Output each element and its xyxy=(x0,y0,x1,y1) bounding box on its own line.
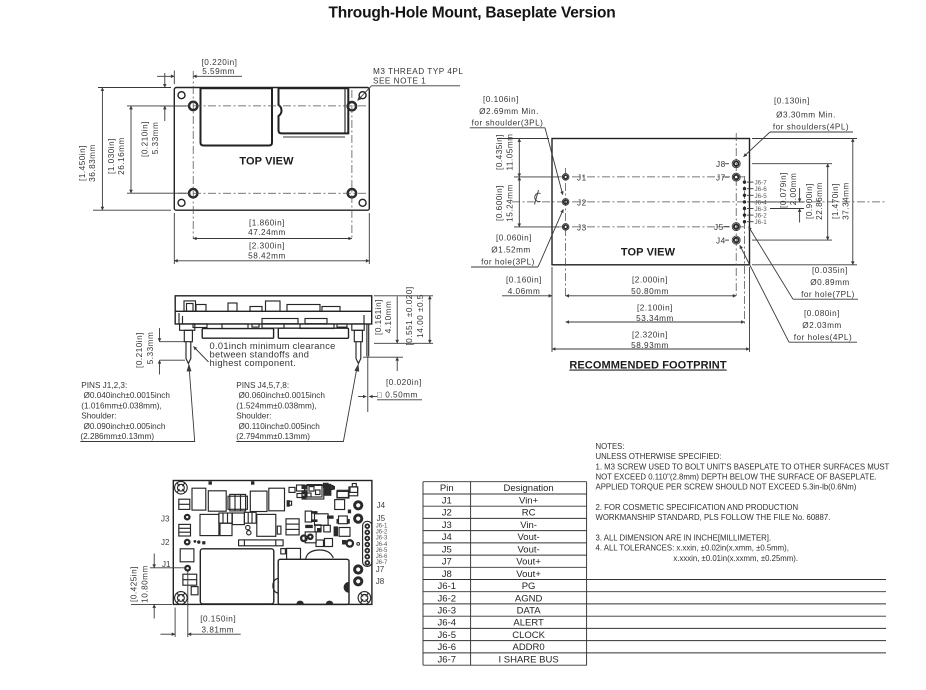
arc wire over right block xyxy=(306,550,334,559)
block right bottom lip xyxy=(283,136,345,138)
footprint centerline J3 row xyxy=(557,226,744,228)
svg-text:x.xxxin, ±0.01in(x.xxmm, ±0.25: x.xxxin, ±0.01in(x.xxmm, ±0.25mm). xyxy=(673,554,798,563)
pcb outline xyxy=(173,481,372,605)
dim 0.425in ext lines xyxy=(150,567,185,569)
svg-text:I SHARE BUS: I SHARE BUS xyxy=(499,654,559,665)
svg-text:5.33mm: 5.33mm xyxy=(151,122,160,155)
side view body outline xyxy=(175,296,372,324)
svg-text:J1: J1 xyxy=(577,173,587,182)
svg-text:J3: J3 xyxy=(577,223,587,232)
bottom right ext xyxy=(752,264,857,266)
svg-text:J6-2: J6-2 xyxy=(438,593,456,604)
svg-text:PG: PG xyxy=(522,581,536,592)
svg-text:APPLIED TORQUE PER SCREW SHOUL: APPLIED TORQUE PER SCREW SHOULD NOT EXCE… xyxy=(596,483,857,492)
svg-text:Ø0.060inch±0.0015inch: Ø0.060inch±0.0015inch xyxy=(239,391,326,400)
pad J3 pcb xyxy=(185,515,190,520)
svg-text:53.34mm: 53.34mm xyxy=(636,314,674,323)
svg-text:RECOMMENDED FOOTPRINT: RECOMMENDED FOOTPRINT xyxy=(569,360,726,372)
svg-text:4.10mm: 4.10mm xyxy=(384,301,393,334)
svg-text:[0.079in]: [0.079in] xyxy=(779,172,788,208)
pcb components right cluster xyxy=(305,485,358,546)
svg-text:Ø2.03mm: Ø2.03mm xyxy=(802,321,841,330)
svg-text:22.86mm: 22.86mm xyxy=(815,182,824,220)
svg-text:J6-6: J6-6 xyxy=(438,642,456,653)
pin J4 shoulder xyxy=(354,330,362,341)
mounting screw hole bottom-left xyxy=(189,189,197,197)
J6 leader ticks xyxy=(747,182,754,222)
pin J1 standoff xyxy=(180,324,195,330)
vertical dash J6 column xyxy=(744,176,746,325)
under-board big block right xyxy=(278,328,348,338)
dim 1.450in extension lines xyxy=(98,87,171,89)
dim 2.300in line xyxy=(174,260,369,262)
svg-text:J5: J5 xyxy=(442,544,452,555)
svg-text:[0.020in]: [0.020in] xyxy=(386,378,422,387)
side component d xyxy=(250,307,262,312)
svg-text:(1.524mm±0.038mm),: (1.524mm±0.038mm), xyxy=(236,401,316,410)
pcb J2 row parts xyxy=(194,481,255,544)
svg-text:J6-1: J6-1 xyxy=(376,524,388,530)
screw head top-left xyxy=(175,481,188,494)
vertical dash J right column xyxy=(735,133,737,297)
svg-text:[0.435in]: [0.435in] xyxy=(495,134,504,170)
clearance note leader xyxy=(194,347,209,363)
svg-text:J6-5: J6-5 xyxy=(438,630,456,641)
callout underline xyxy=(372,85,461,87)
svg-text:Ø0.040inch±0.0015inch: Ø0.040inch±0.0015inch xyxy=(84,391,171,400)
svg-text:J4: J4 xyxy=(442,532,452,543)
svg-text:58.42mm: 58.42mm xyxy=(248,252,286,261)
svg-text:J6-6: J6-6 xyxy=(376,554,388,560)
pad J5 pcb xyxy=(355,515,362,522)
svg-text:Shoulder:: Shoulder: xyxy=(81,412,116,421)
svg-text:J5: J5 xyxy=(714,223,724,232)
pad J7 xyxy=(732,173,740,181)
svg-text:[0.130in]: [0.130in] xyxy=(774,97,810,106)
dim 0.425in arrows outside xyxy=(153,554,155,568)
dim 1.860in line xyxy=(193,238,352,240)
centerline vertical left screws xyxy=(192,71,194,239)
svg-text:14.00 ±0.5: 14.00 ±0.5 xyxy=(416,294,425,338)
right ext J6-3 row xyxy=(770,208,804,210)
pin J4 shaft xyxy=(356,342,361,364)
svg-text:AGND: AGND xyxy=(515,593,543,604)
side component c xyxy=(196,305,206,312)
svg-text:CLOCK: CLOCK xyxy=(512,630,545,641)
centerline horizontal top screws xyxy=(178,105,366,107)
svg-text:J8: J8 xyxy=(376,577,385,586)
svg-text:Vin-: Vin- xyxy=(520,520,537,531)
dim 0.161in arrows outside xyxy=(396,297,398,344)
footprint centerline main xyxy=(512,201,886,203)
notch bump left edge right block xyxy=(273,579,278,594)
module outline xyxy=(174,88,369,211)
svg-text:J2: J2 xyxy=(577,198,587,207)
dim 0.210in extension line xyxy=(160,105,186,107)
bottom bump 2 right block xyxy=(326,601,333,605)
pad J2 pcb xyxy=(185,540,190,545)
svg-text:4. ALL TOLERANCES: x.xxin, ±0.: 4. ALL TOLERANCES: x.xxin, ±0.02in(x.xmm… xyxy=(596,544,789,553)
svg-text:50.80mm: 50.80mm xyxy=(631,287,669,296)
svg-text:[0.220in]: [0.220in] xyxy=(202,58,238,67)
dim 0.160in arrows xyxy=(502,295,552,297)
side component b xyxy=(187,304,194,312)
corner hole bottom-right xyxy=(359,199,366,206)
svg-text:15.24mm: 15.24mm xyxy=(506,184,515,222)
svg-text:[0.425in]: [0.425in] xyxy=(130,566,139,602)
svg-text:Ø0.89mm: Ø0.89mm xyxy=(810,278,849,287)
pad J3 xyxy=(562,224,569,231)
svg-text:J4: J4 xyxy=(716,237,726,246)
svg-text:10.80mm: 10.80mm xyxy=(141,565,150,603)
dim 2.320in line xyxy=(552,348,750,350)
svg-text:Ø0.090inch±0.005inch: Ø0.090inch±0.005inch xyxy=(84,422,166,431)
svg-text:Vout+: Vout+ xyxy=(516,569,541,580)
connector J6 body xyxy=(363,521,372,566)
dim 0.210in arrows (outside) xyxy=(164,73,166,88)
svg-text:[1.470in]: [1.470in] xyxy=(831,183,840,219)
svg-text:58.93mm: 58.93mm xyxy=(631,341,669,350)
svg-text:(2.286mm±0.13mm): (2.286mm±0.13mm) xyxy=(80,432,154,441)
pin J1 shoulder xyxy=(184,330,192,341)
svg-text:J6-1: J6-1 xyxy=(755,219,768,226)
svg-text:2.00mm: 2.00mm xyxy=(789,173,798,206)
svg-text:ALERT: ALERT xyxy=(513,618,544,629)
svg-text:DATA: DATA xyxy=(517,606,542,617)
svg-text:J1: J1 xyxy=(442,496,452,507)
svg-text:Ø0.110inch±0.005inch: Ø0.110inch±0.005inch xyxy=(239,422,321,431)
svg-text:5.59mm: 5.59mm xyxy=(202,67,235,76)
right ext J8 row xyxy=(752,163,832,165)
small tab left of it xyxy=(281,549,286,554)
svg-text:PINS J1,2,3:: PINS J1,2,3: xyxy=(81,381,127,390)
pad J4 xyxy=(732,236,740,244)
pad J1 pcb xyxy=(185,566,190,571)
pad J2 xyxy=(562,199,569,206)
screw head bottom-left xyxy=(175,592,188,605)
svg-text:J8: J8 xyxy=(716,160,726,169)
svg-text:M3 THREAD TYP 4PL: M3 THREAD TYP 4PL xyxy=(373,67,463,76)
pads J6-1..J6-7 xyxy=(743,180,746,223)
svg-text:37.34mm: 37.34mm xyxy=(842,182,851,220)
svg-text:UNLESS OTHERWISE SPECIFIED:: UNLESS OTHERWISE SPECIFIED: xyxy=(596,452,722,461)
svg-text:□ 0.50mm: □ 0.50mm xyxy=(377,391,418,400)
svg-text:for shoulders(4PL): for shoulders(4PL) xyxy=(773,123,849,132)
side view baseplate line xyxy=(175,310,372,312)
leader to J8 xyxy=(744,132,771,157)
svg-text:[0.551 ±0.020]: [0.551 ±0.020] xyxy=(405,286,414,345)
svg-text:PINS J4,5,7,8:: PINS J4,5,7,8: xyxy=(236,381,289,390)
notch right edge right block xyxy=(344,582,349,593)
right ext J4 row xyxy=(752,239,832,241)
svg-text:NOT EXCEED 0.110"(2.8mm) DEPTH: NOT EXCEED 0.110"(2.8mm) DEPTH BELOW THE… xyxy=(596,473,877,482)
pad J5 xyxy=(732,223,740,231)
svg-text:[0.035in]: [0.035in] xyxy=(812,266,848,275)
svg-text:[0.080in]: [0.080in] xyxy=(804,309,840,318)
svg-text:[0.106in]: [0.106in] xyxy=(483,95,519,104)
dim 0.435in left ext xyxy=(497,138,549,140)
svg-text:NOTES:: NOTES: xyxy=(596,442,625,451)
svg-text:[2.300in]: [2.300in] xyxy=(249,242,285,251)
svg-text:3. ALL DIMENSION ARE IN INCHE[: 3. ALL DIMENSION ARE IN INCHE[MILLIMETER… xyxy=(596,534,772,543)
svg-text:J5: J5 xyxy=(377,514,386,523)
svg-text:5.33mm: 5.33mm xyxy=(146,332,155,365)
callout leader xyxy=(358,86,372,101)
svg-text:for shoulder(3PL): for shoulder(3PL) xyxy=(472,119,544,128)
dim 0.210in side arrows outside xyxy=(159,328,161,342)
big block right pcb xyxy=(278,559,349,604)
pin J6 square pin xyxy=(366,324,368,357)
screw head bottom-right xyxy=(358,592,371,605)
dim 0.551 line xyxy=(429,296,431,344)
bottom bump 1 right block xyxy=(296,601,303,605)
footprint outline xyxy=(552,139,750,265)
top right ext xyxy=(752,138,857,140)
leader to J2 from below xyxy=(538,209,563,267)
svg-text:for holes(4PL): for holes(4PL) xyxy=(794,333,852,342)
svg-text:J7: J7 xyxy=(376,565,385,574)
pcb components top row xyxy=(179,483,358,511)
svg-text:Through-Hole Mount, Baseplate: Through-Hole Mount, Baseplate Version xyxy=(328,5,615,22)
svg-text:[1.450in]: [1.450in] xyxy=(78,145,87,181)
pin J1 shaft xyxy=(186,342,191,364)
dim 2.000in line xyxy=(566,295,737,297)
leader to J6-1 xyxy=(749,227,794,300)
dim 1.450in line xyxy=(101,88,103,211)
pad J8 xyxy=(732,160,740,168)
dim 0.079in arrows outside xyxy=(799,188,801,202)
pin J6 extended line xyxy=(367,356,369,412)
svg-text:for hole(7PL): for hole(7PL) xyxy=(801,290,855,299)
svg-text:[0.210in]: [0.210in] xyxy=(141,121,150,157)
big block left pcb xyxy=(200,549,273,604)
svg-text:(2.794mm±0.13mm): (2.794mm±0.13mm) xyxy=(236,432,310,441)
svg-text:TOP VIEW: TOP VIEW xyxy=(239,156,294,168)
dim 1.030in line xyxy=(130,106,132,193)
dim 0.900in line xyxy=(827,164,829,240)
pcb components mid row xyxy=(179,512,299,536)
dim 1.030in extension lines xyxy=(127,105,188,107)
svg-text:J6-1: J6-1 xyxy=(438,581,456,592)
pad J1 xyxy=(562,174,569,181)
dim 0.435in line xyxy=(518,139,520,177)
small rect on right block xyxy=(287,548,301,559)
centerline symbol xyxy=(535,190,541,205)
block right inner edge line xyxy=(344,88,346,133)
pcb long bar component xyxy=(239,540,284,546)
svg-text:RC: RC xyxy=(522,508,536,519)
pad J4 pcb xyxy=(355,502,362,509)
svg-text:J6-4: J6-4 xyxy=(376,542,388,548)
svg-text:[0.160in]: [0.160in] xyxy=(506,275,542,284)
svg-text:[0.210in]: [0.210in] xyxy=(135,332,144,368)
vertical dash J1 column xyxy=(565,168,567,297)
svg-text:26.16mm: 26.16mm xyxy=(117,137,126,175)
svg-text:2. FOR COSMETIC SPECIFICATION: 2. FOR COSMETIC SPECIFICATION AND PRODUC… xyxy=(596,503,799,512)
dim 2.100in line xyxy=(566,321,745,323)
dim 0.600in line xyxy=(518,177,520,227)
svg-text:3.81mm: 3.81mm xyxy=(202,625,235,634)
svg-text:J4: J4 xyxy=(377,501,386,510)
svg-text:TOP VIEW: TOP VIEW xyxy=(621,247,676,259)
leader to J4 xyxy=(740,245,789,342)
dim 0.161in short ext at pin tip xyxy=(363,356,403,358)
pins J4578 underline + leader xyxy=(236,369,356,442)
svg-text:J6-4: J6-4 xyxy=(438,618,456,629)
svg-text:J6-5: J6-5 xyxy=(376,548,388,554)
side component h xyxy=(228,303,237,311)
dim 0.150in arrows outside xyxy=(161,633,176,635)
svg-text:[0.900in]: [0.900in] xyxy=(805,183,814,219)
centerline horizontal bottom screws xyxy=(178,192,366,194)
table grid xyxy=(423,482,886,666)
side component f xyxy=(287,305,320,312)
svg-text:J6-3: J6-3 xyxy=(376,536,388,542)
svg-text:Ø1.52mm: Ø1.52mm xyxy=(491,246,530,255)
pad J7 pcb xyxy=(355,566,362,573)
svg-text:[0.060in]: [0.060in] xyxy=(496,234,532,243)
side underside ticks xyxy=(179,313,364,324)
under-board small parts row xyxy=(193,324,347,329)
svg-text:[0.161in]: [0.161in] xyxy=(374,299,383,335)
svg-text:highest component.: highest component. xyxy=(210,358,297,368)
svg-text:47.24mm: 47.24mm xyxy=(248,228,286,237)
dim 0.220in extension lines xyxy=(173,71,175,85)
footprint left edge ext down xyxy=(551,267,553,352)
corner hole top-right xyxy=(359,92,366,99)
component block right (top view) xyxy=(279,88,349,133)
dim 0.220in line right tail xyxy=(193,75,242,77)
dim 0.150in ext lines xyxy=(174,608,176,638)
svg-text:36.83mm: 36.83mm xyxy=(88,144,97,182)
pin J4 standoff xyxy=(352,324,364,330)
mounting screw hole bottom-right xyxy=(348,189,356,197)
pcb bottom-left parts xyxy=(180,549,198,595)
svg-text:[2.000in]: [2.000in] xyxy=(632,275,668,284)
svg-text:J8: J8 xyxy=(442,569,452,580)
pins J123 underline + leader xyxy=(80,369,194,442)
component block left (top view) xyxy=(201,88,273,145)
leader to J2 xyxy=(545,128,563,195)
svg-text:[0.600in]: [0.600in] xyxy=(495,185,504,221)
dim 0.161in extension xyxy=(374,342,433,344)
svg-text:(1.016mm±0.038mm),: (1.016mm±0.038mm), xyxy=(81,401,161,410)
svg-text:J6-2: J6-2 xyxy=(376,530,388,536)
under-board big block left xyxy=(202,329,273,339)
svg-text:Designation: Designation xyxy=(504,483,554,494)
dim 0.210in side extension lines xyxy=(160,341,185,343)
svg-text:[1.860in]: [1.860in] xyxy=(249,219,285,228)
svg-text:WORKMANSHIP STANDARD, PLS FOLL: WORKMANSHIP STANDARD, PLS FOLLOW THE FIL… xyxy=(596,513,831,522)
svg-text:Vout-: Vout- xyxy=(518,532,540,543)
svg-text:Ø2.69mm Min.: Ø2.69mm Min. xyxy=(479,107,539,116)
side component a xyxy=(184,301,196,311)
svg-text:Pin: Pin xyxy=(440,483,454,494)
svg-text:SEE NOTE 1: SEE NOTE 1 xyxy=(373,77,426,86)
footprint centerline J1 row xyxy=(557,176,744,178)
svg-text:for hole(3PL): for hole(3PL) xyxy=(481,258,535,267)
svg-text:[2.100in]: [2.100in] xyxy=(637,304,673,313)
svg-text:J7: J7 xyxy=(716,174,726,183)
dim 0.020in square pin arrows xyxy=(358,396,366,398)
corner hole top-left xyxy=(178,92,185,99)
svg-text:Vout-: Vout- xyxy=(518,544,540,555)
dim 2.300in extension lines xyxy=(173,213,175,264)
J6 labels xyxy=(755,180,768,227)
svg-text:J3: J3 xyxy=(161,515,170,524)
table text xyxy=(438,483,559,665)
svg-text:Ø3.30mm Min.: Ø3.30mm Min. xyxy=(776,111,836,120)
svg-text:11.05mm: 11.05mm xyxy=(506,133,515,170)
svg-text:Vout+: Vout+ xyxy=(516,557,541,568)
svg-text:J3: J3 xyxy=(442,520,452,531)
connector J6 pins xyxy=(365,524,369,564)
footprint right edge ext down xyxy=(749,267,751,352)
svg-text:ADDR0: ADDR0 xyxy=(512,642,544,653)
svg-text:4.06mm: 4.06mm xyxy=(508,287,541,296)
svg-text:[0.150in]: [0.150in] xyxy=(200,615,236,624)
dim 1.470in line xyxy=(852,139,854,265)
svg-text:J6-7: J6-7 xyxy=(438,654,456,665)
centerline vertical right screws xyxy=(351,90,353,239)
dim 0.551 extension top xyxy=(374,295,433,297)
mounting screw hole top-right xyxy=(348,102,356,110)
pad J8 pcb xyxy=(355,578,362,585)
svg-text:1. M3 SCREW USED TO BOLT UNIT': 1. M3 SCREW USED TO BOLT UNIT'S BASEPLAT… xyxy=(596,462,890,471)
side component e xyxy=(266,301,281,311)
svg-text:[2.320in]: [2.320in] xyxy=(632,331,668,340)
svg-text:Shoulder:: Shoulder: xyxy=(236,412,271,421)
right ext J6-4 row xyxy=(752,201,804,203)
svg-text:J7: J7 xyxy=(442,557,452,568)
side component g xyxy=(322,307,340,312)
corner hole bottom-left xyxy=(178,199,185,206)
svg-text:J2: J2 xyxy=(442,508,452,519)
dim 0.020 underline xyxy=(377,399,422,401)
mounting screw hole top-left xyxy=(189,102,197,110)
svg-text:[1.030in]: [1.030in] xyxy=(107,138,116,174)
svg-text:J2: J2 xyxy=(161,538,170,547)
dim 0.220in line left tail xyxy=(157,75,174,77)
svg-text:J6-3: J6-3 xyxy=(438,606,456,617)
svg-text:Vin+: Vin+ xyxy=(519,496,539,507)
